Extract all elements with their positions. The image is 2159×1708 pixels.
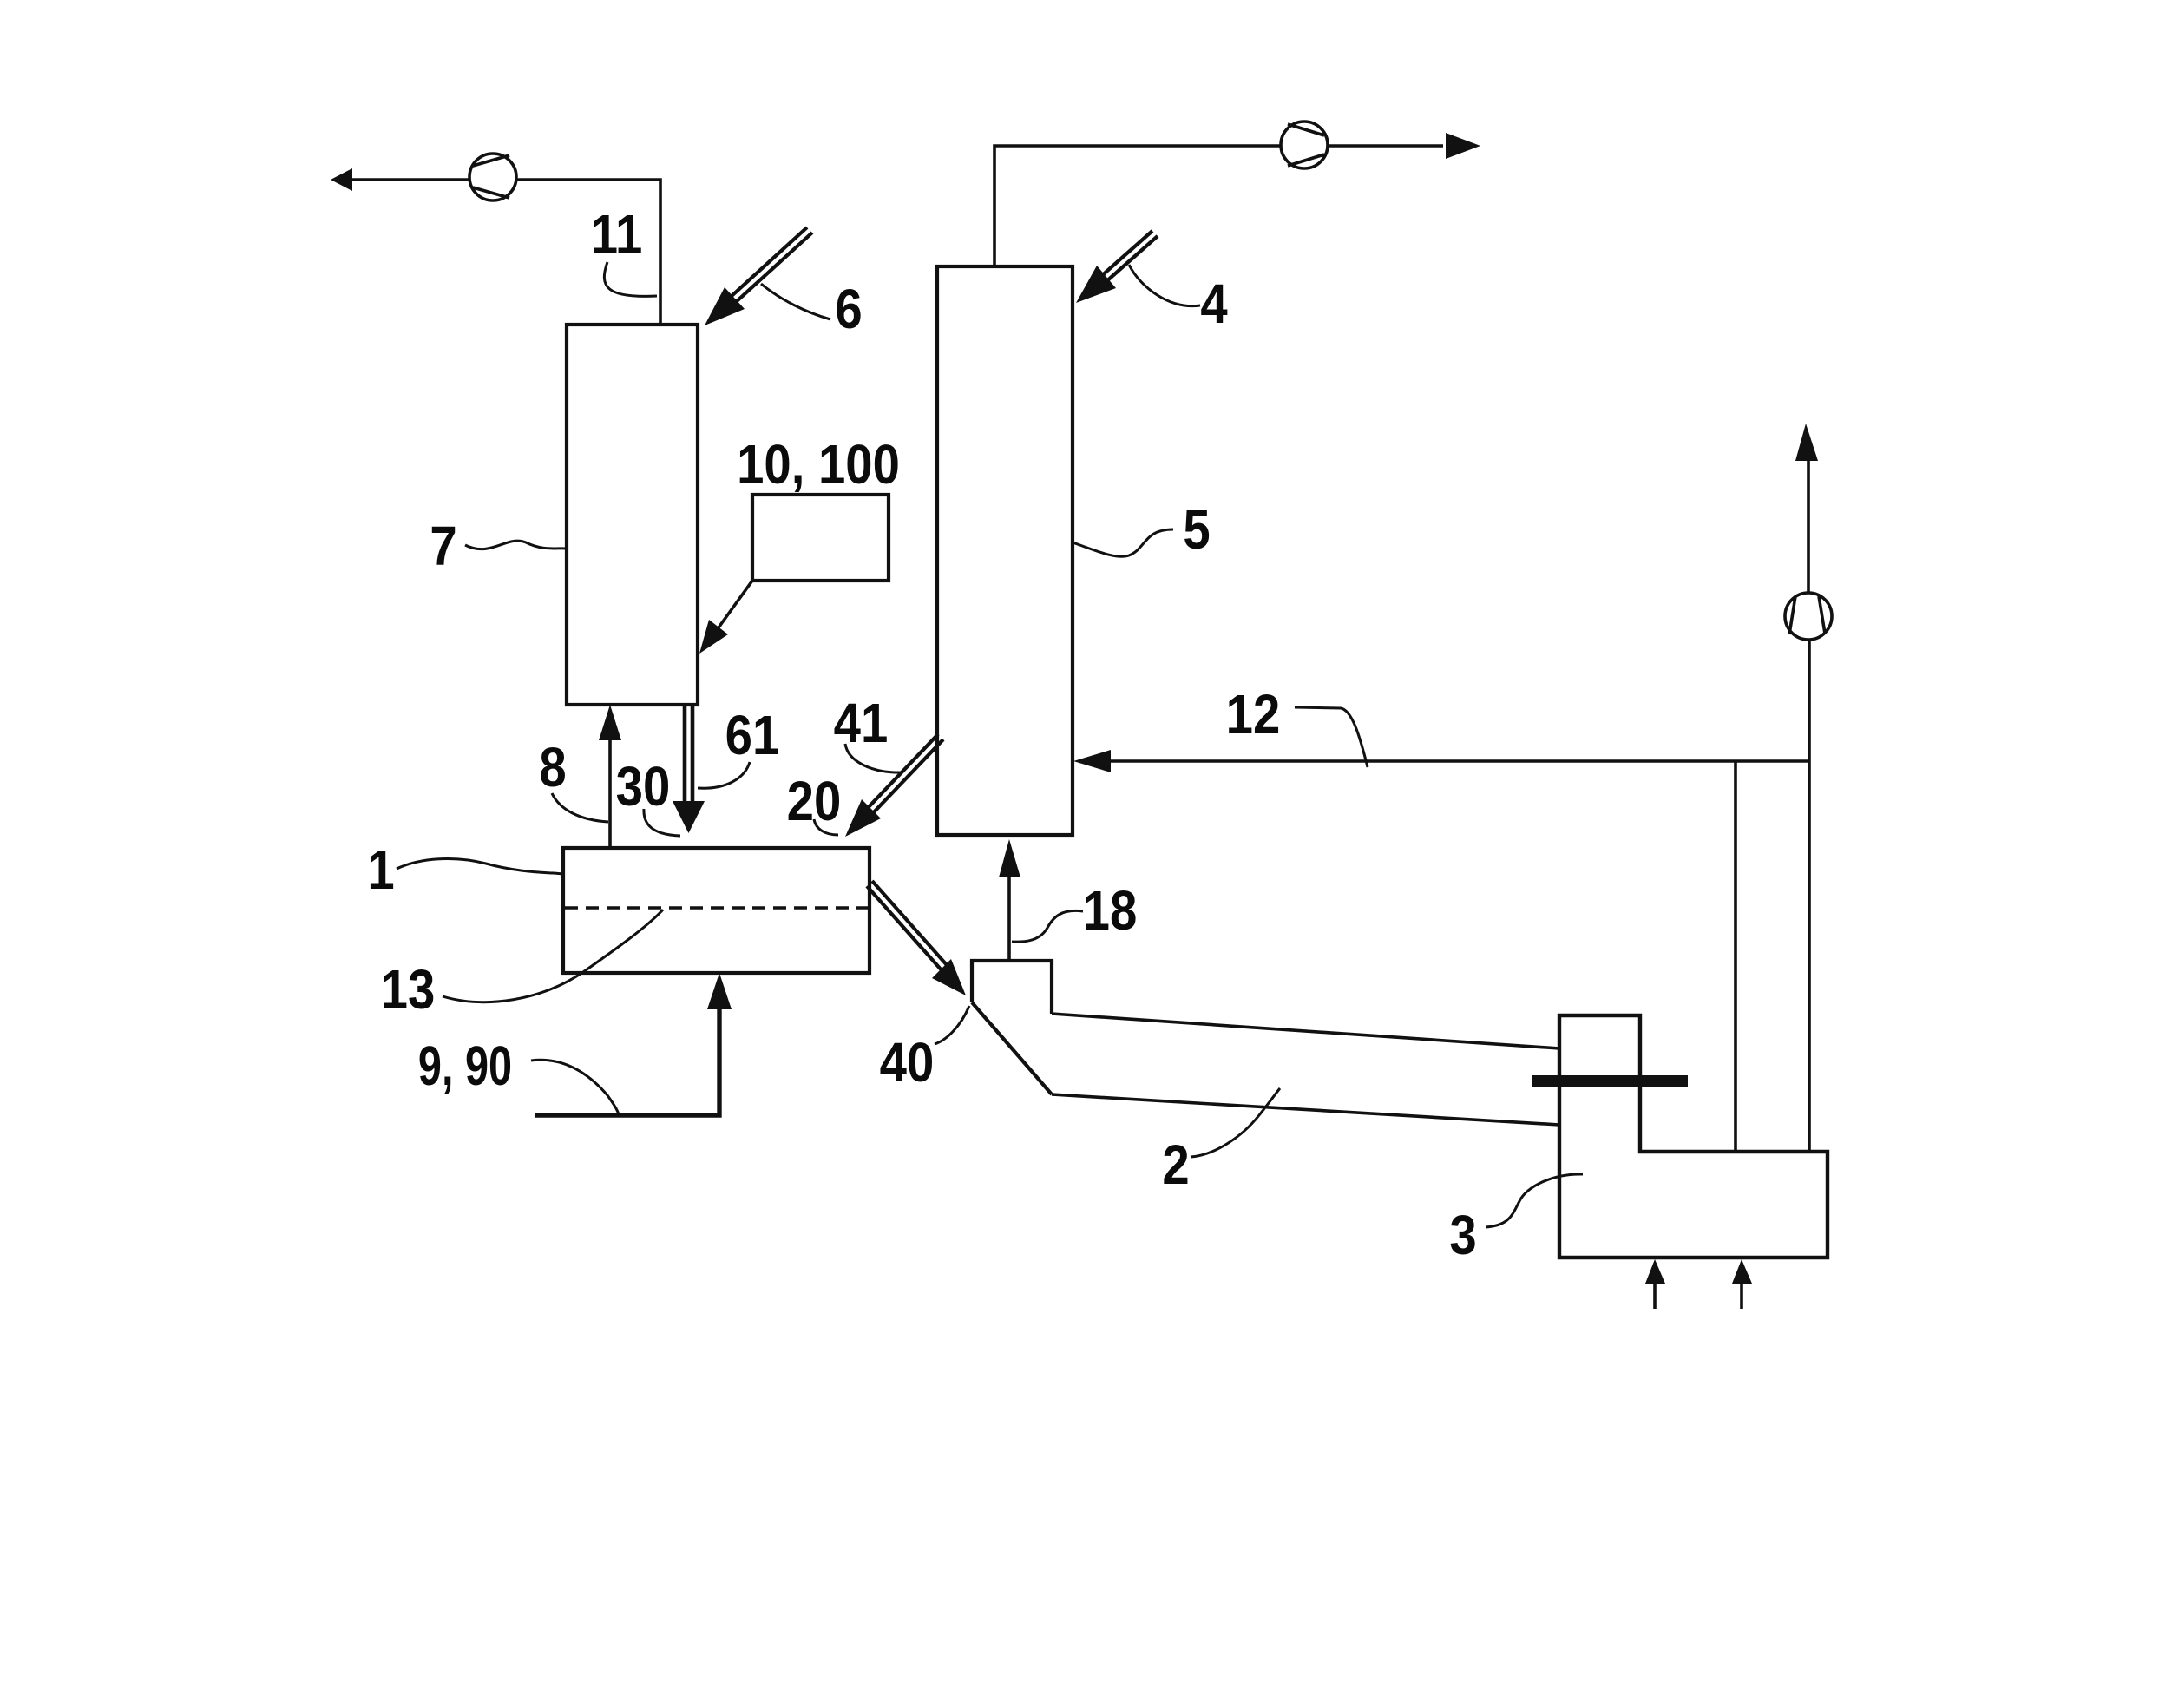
arrow from box 10,100 to column 7: [699, 581, 752, 654]
arrow 8: vapour line from vessel 1 up into column 7: [599, 705, 621, 848]
leader line for label 12: [1295, 707, 1368, 767]
wire: recycle line 12 into column 5: [1095, 759, 1809, 763]
svg-text:8: 8: [539, 736, 566, 798]
leader line for label 8: [552, 793, 608, 822]
svg-text:20: 20: [787, 770, 842, 832]
conveyor 2 (inclined conveyor lines): [1052, 1014, 1559, 1125]
chute 40 (hopper at head of conveyor 2): [972, 961, 1052, 1094]
svg-text:2: 2: [1162, 1133, 1189, 1196]
wire: off-gas line from column 7 top (stream 11): [351, 180, 660, 325]
leader line for label 13: [443, 910, 663, 1002]
arrow 4: double-line feed arrow into top of column 5: [1076, 231, 1158, 303]
box 10, 100 (control unit): [752, 495, 889, 581]
fan/blower symbol on column 5 off-gas line: [1281, 122, 1328, 168]
leader line for label 2: [1191, 1088, 1280, 1157]
svg-text:5: 5: [1183, 498, 1210, 561]
arrowhead: off-gas to left: [331, 168, 352, 191]
leader line for label 1: [397, 858, 563, 874]
arrowhead: off-gas to right: [1446, 133, 1480, 159]
leader line for label 7: [465, 541, 567, 549]
stream 40: double-line from vessel 1 to chute 40: [867, 881, 966, 995]
column 7 (first reactor vessel): [567, 325, 698, 705]
wire: off-gas line from column 5 top: [994, 146, 1443, 266]
thick bar on furnace stub: [1532, 1075, 1688, 1087]
arrowhead: vent up: [1795, 424, 1818, 461]
leader line for label 6: [761, 284, 830, 319]
svg-text:6: 6: [835, 278, 862, 340]
svg-text:9, 90: 9, 90: [418, 1036, 512, 1098]
svg-text:61: 61: [725, 704, 780, 766]
stream 61/30: double-line return from column 7 down to vessel 1: [673, 705, 705, 833]
svg-text:7: 7: [430, 515, 456, 577]
furnace 3 (L-shaped box): [1559, 1015, 1828, 1258]
leader line for label 40: [935, 1006, 969, 1044]
leader line for label 4: [1129, 265, 1200, 306]
column 5 (second reactor vessel): [937, 266, 1073, 835]
leader line for label 30: [644, 809, 680, 836]
dashed liquid level line 13: [565, 906, 868, 910]
leader line for label 20: [814, 819, 838, 835]
arrow 6: double-line feed arrow into top of column 7: [705, 227, 812, 325]
arrowhead of line 12: [1073, 750, 1111, 772]
svg-text:1: 1: [367, 838, 394, 901]
leader line for label 18: [1012, 910, 1083, 942]
leader line for label 11: [604, 262, 657, 296]
svg-text:10, 100: 10, 100: [737, 433, 900, 496]
small air arrows under furnace 3: [1645, 1259, 1752, 1309]
fan/blower symbol on stream 11: [469, 154, 516, 200]
svg-text:13: 13: [381, 958, 436, 1021]
svg-text:12: 12: [1226, 683, 1281, 746]
arrow 41/20: double-line arrow from column 5 to vessel 1: [845, 734, 943, 837]
svg-text:11: 11: [591, 203, 643, 266]
svg-text:18: 18: [1083, 879, 1138, 942]
thick feed arrow 9,90 into vessel 1: [535, 1007, 719, 1115]
fan/blower symbol on vent line: [1785, 593, 1832, 640]
wire: riser pipe pair from furnace 3: [1736, 761, 1809, 1152]
leader line for label 61: [698, 762, 750, 788]
svg-text:40: 40: [880, 1031, 935, 1094]
leader line for label 41: [845, 744, 902, 772]
svg-text:41: 41: [834, 692, 889, 754]
arrow 18: line from chute up into bottom of column 5: [999, 839, 1020, 961]
svg-text:3: 3: [1449, 1204, 1476, 1266]
svg-text:30: 30: [616, 755, 671, 818]
vessel 1 (horizontal tank with liquid level): [563, 848, 870, 973]
leader line for label 9,90: [531, 1060, 619, 1114]
svg-text:4: 4: [1200, 273, 1228, 335]
leader line for label 3: [1486, 1174, 1583, 1227]
leader line for label 5: [1073, 529, 1173, 556]
wire: vent line up from riser: [1808, 458, 1809, 761]
